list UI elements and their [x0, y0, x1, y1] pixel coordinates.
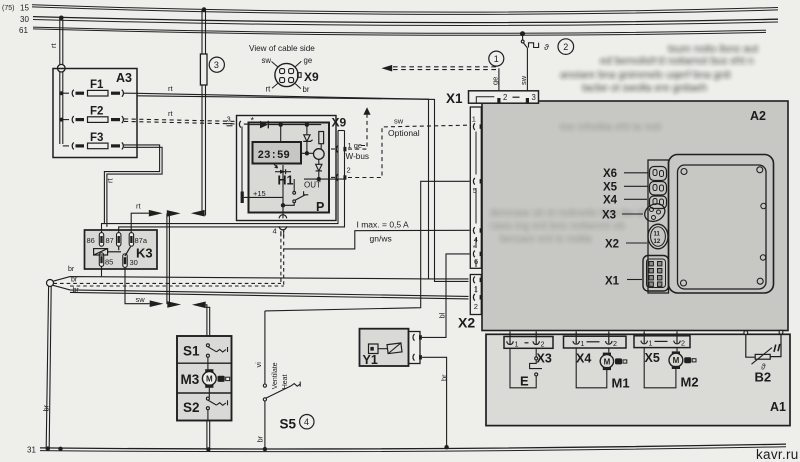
svg-text:X1: X1 [605, 276, 620, 288]
wire bus30 to A3 (rt) [60, 19, 63, 66]
svg-text:1: 1 [474, 284, 478, 293]
wire X1 pin5 to switch S5 (vi) [265, 181, 470, 311]
resistor [319, 132, 324, 144]
svg-text:A1: A1 [770, 400, 786, 414]
wire node to display [280, 126, 282, 142]
X1 pin 1 [472, 115, 483, 130]
svg-text:X5: X5 [645, 351, 660, 365]
svg-text:M: M [604, 357, 611, 366]
wire splice to X2 pin2 (br double) [53, 285, 469, 299]
svg-text:30: 30 [20, 15, 29, 24]
svg-text:F1: F1 [90, 79, 104, 91]
relay K3 [85, 230, 158, 269]
svg-text:1: 1 [494, 54, 499, 64]
svg-text:tne mhoitta eht ta noit: tne mhoitta eht ta noit [560, 121, 661, 133]
blower unit box S1/M3/S2 [177, 336, 232, 421]
svg-text:X3: X3 [602, 210, 616, 222]
glow plug E circuit [510, 348, 542, 388]
svg-text:vi: vi [254, 362, 263, 368]
ECU connector X2 [648, 224, 668, 249]
svg-text:4: 4 [474, 235, 478, 244]
circled 2 [558, 39, 574, 55]
ECU inner frame [678, 165, 767, 289]
svg-text:4: 4 [304, 417, 309, 427]
svg-text:H1: H1 [278, 174, 294, 188]
ECU corner screws [681, 169, 687, 175]
svg-text:rt: rt [266, 85, 272, 94]
svg-text:tacbe ot swolla ere gnitaeh: tacbe ot swolla ere gnitaeh [582, 82, 707, 94]
bus line 15 [32, 5, 778, 15]
svg-text:X6: X6 [603, 168, 617, 180]
svg-text:OUT: OUT [304, 181, 321, 190]
svg-text:br: br [439, 374, 448, 381]
X1 pin 6 [473, 245, 483, 266]
wire Y1 to bus31 (br) [422, 357, 447, 446]
circled 1 [489, 51, 504, 66]
fuse 3 (inline) [200, 54, 207, 85]
X1 pin 5 [473, 178, 483, 195]
X2 pin 1 [473, 277, 482, 294]
svg-text:ϑ: ϑ [544, 42, 549, 52]
motor M2 [644, 348, 696, 388]
svg-text:raws ing ent bno noitamot eb: raws ing ent bno noitamot eb [490, 220, 625, 232]
K3 pin 87a [129, 233, 133, 247]
svg-text:(75): (75) [2, 5, 14, 12]
svg-text:2: 2 [474, 302, 478, 311]
ECU connector X1 [643, 256, 669, 292]
junction dot on bus 61 for thermal switch [520, 31, 525, 36]
svg-text:S2: S2 [183, 400, 200, 415]
X9 bracket top bar [338, 130, 345, 132]
motor M3 [202, 369, 229, 388]
svg-text:3: 3 [214, 60, 219, 70]
label X6 [603, 168, 648, 180]
svg-text:tsum noits ilsno aut: tsum noits ilsno aut [668, 43, 758, 55]
wire sw arrow down to blower box [206, 305, 210, 336]
svg-text:2: 2 [541, 339, 545, 348]
wire blower to bus31 [207, 421, 210, 450]
svg-text:I max. = 0,5 A: I max. = 0,5 A [357, 220, 410, 230]
svg-text:12: 12 [654, 239, 661, 245]
svg-text:kavr.ru: kavr.ru [756, 447, 799, 462]
svg-text:X2: X2 [605, 239, 619, 251]
K3 coil [94, 249, 121, 255]
label X5 [603, 182, 648, 194]
K3 pin 30 [123, 254, 127, 268]
fuse box A3 [53, 69, 137, 158]
svg-text:4: 4 [273, 227, 277, 236]
fuse F2 [72, 116, 123, 123]
svg-text:K3: K3 [136, 246, 153, 261]
P pin 3 terminal [239, 121, 249, 128]
X1 top connector box (pins 2,3) [469, 91, 539, 103]
OUT line [304, 178, 344, 180]
svg-text:1: 1 [472, 115, 476, 124]
temperature sensor B2 [744, 330, 783, 371]
svg-text:br: br [303, 85, 310, 94]
svg-text:87: 87 [106, 236, 114, 245]
svg-text:30: 30 [130, 258, 138, 267]
X1 pin 4 [473, 227, 482, 244]
svg-text:A3: A3 [116, 71, 132, 85]
svg-text:View of cable side: View of cable side [249, 44, 315, 53]
switch S2 [206, 388, 227, 421]
svg-text:86: 86 [87, 236, 95, 245]
svg-text:bersam ent lo noitla: bersam ent lo noitla [500, 233, 592, 245]
connector box X4 [564, 332, 627, 349]
bus line 30 [33, 17, 778, 26]
svg-text:1: 1 [581, 339, 585, 348]
bus line 31 [40, 444, 786, 452]
svg-text:Optional: Optional [388, 128, 420, 138]
fuse F1 [72, 90, 137, 97]
circled 3 [209, 57, 224, 72]
internal switch [283, 179, 308, 205]
+15 terminal [241, 192, 244, 204]
control unit box A2 [482, 101, 788, 331]
wire fuse3 vertical from bus15 [202, 10, 206, 215]
svg-text:2: 2 [613, 339, 617, 348]
svg-text:*: * [473, 245, 476, 252]
ECU body [669, 155, 774, 294]
timer outer frame (X9 connector boundary) [237, 116, 337, 221]
ECU side bumps [761, 203, 766, 208]
fuse F3 [72, 142, 123, 149]
set-button symbol H1 [274, 164, 292, 175]
label X1 [605, 276, 642, 288]
P pin 4 lead [282, 208, 284, 219]
X2 pin 2 [473, 294, 482, 311]
svg-text:1: 1 [515, 339, 519, 348]
svg-text:sw: sw [519, 75, 528, 85]
svg-text:denmaw sit ot noitnetlo bna ti: denmaw sit ot noitnetlo bna tiw sl [490, 207, 644, 219]
K3 pin 86 [99, 233, 103, 247]
wire F3 rt down to K3/X9 rail [104, 145, 162, 227]
svg-text:2: 2 [503, 93, 507, 102]
svg-text:M2: M2 [681, 375, 699, 390]
switch S1 [206, 344, 227, 369]
wire splice down to bus31 (br) [46, 286, 51, 448]
svg-text:6: 6 [474, 257, 478, 266]
svg-text:M: M [206, 375, 213, 384]
node circle at A3 corner [58, 64, 66, 72]
svg-text:ge: ge [491, 77, 500, 85]
connector arrow pair (rt row) [149, 210, 205, 217]
dashed optional wire pin2 to X1 pin1 (sw) [348, 125, 469, 177]
P pin 4 terminal arcs [279, 215, 286, 230]
svg-text:ed bemolish'd noitamot bus eht: ed bemolish'd noitamot bus eht n [600, 55, 754, 67]
vertical link wires between arrow rows [167, 214, 170, 305]
X9 pin 1 terminal [331, 146, 346, 153]
label X4 [603, 195, 647, 207]
svg-text:X2: X2 [458, 315, 475, 331]
Y1 pin bottom [413, 354, 422, 361]
timer P inner box [249, 123, 330, 213]
svg-text:15: 15 [20, 4, 29, 13]
ECU connector X5 [650, 182, 667, 196]
valve Y1 [360, 329, 409, 367]
svg-text:sw: sw [136, 295, 146, 304]
wire K3 86 to X9 frame rail [102, 131, 339, 233]
K3 contact blade [119, 246, 131, 256]
svg-text:Y1: Y1 [363, 353, 378, 367]
svg-text:E: E [520, 374, 529, 389]
svg-text:S1: S1 [183, 344, 200, 359]
svg-text:M: M [673, 356, 680, 365]
switch S5 ventilate/heat [263, 311, 300, 448]
output diode [316, 159, 322, 179]
svg-text:F2: F2 [90, 106, 103, 118]
svg-text:2: 2 [347, 166, 351, 175]
svg-text:85: 85 [105, 258, 113, 267]
svg-text:3: 3 [227, 115, 231, 124]
ECU connector X4 [650, 196, 667, 209]
connector arrow pair (sw row) [150, 300, 206, 308]
svg-text:11: 11 [654, 232, 661, 238]
K3 pin 85 [99, 253, 103, 267]
label X2 [605, 239, 647, 251]
clock display 23:59 [253, 142, 302, 164]
X1 connector bracket [470, 107, 481, 268]
Y1 connector bracket [409, 332, 421, 364]
connector box X5 [634, 332, 690, 348]
svg-text:W-bus: W-bus [346, 152, 370, 161]
svg-text:bl: bl [437, 312, 446, 318]
dashed W-bus wire with up arrow [348, 115, 367, 150]
svg-text:S5: S5 [280, 417, 297, 432]
dashed ge continuation arrow (left) [381, 65, 392, 72]
wire K3 87a up to connector arrow (rt) [131, 213, 149, 232]
splice node (br) [47, 280, 54, 287]
junction dots on bus 31 [58, 447, 62, 451]
svg-text:X4: X4 [576, 352, 591, 366]
svg-text:2: 2 [681, 339, 685, 348]
ECU connector X6 [650, 167, 667, 181]
svg-text:5: 5 [473, 186, 477, 195]
svg-text:br: br [68, 266, 75, 273]
internal ground rail [282, 165, 284, 205]
X2 connector bracket [470, 275, 481, 315]
svg-text:3: 3 [532, 93, 536, 102]
svg-text:61: 61 [19, 26, 28, 35]
svg-text:F3: F3 [90, 132, 103, 144]
svg-text:sw: sw [394, 117, 404, 126]
svg-text:X9: X9 [304, 70, 319, 84]
svg-text:A2: A2 [750, 109, 766, 123]
X9 pin 2 terminal [331, 174, 346, 181]
wire splice to K3 85 and X2 pin1 (br) [53, 277, 428, 282]
svg-text:2: 2 [563, 42, 568, 52]
svg-text:gn/ws: gn/ws [370, 234, 392, 244]
wire X1 pin6 to valve Y1 (bl) [422, 254, 470, 338]
svg-text:X5: X5 [603, 182, 618, 194]
svg-text:B2: B2 [755, 370, 772, 385]
svg-text:31: 31 [27, 446, 36, 455]
svg-text:Ventilate: Ventilate [272, 362, 279, 389]
svg-text:br: br [71, 277, 78, 284]
connector box X3 [504, 332, 553, 349]
zener diode [303, 126, 312, 152]
svg-text:P: P [316, 200, 324, 214]
ECU connector X3 [642, 200, 668, 225]
wire splice dashed to P pin 4 [53, 229, 283, 286]
bus line 61 [33, 27, 766, 35]
wire F2 dashed (rt) to P pin 3 [124, 119, 236, 124]
A3 internal feed rail [60, 72, 69, 146]
wire ge down to X1 top pin 2 [498, 68, 500, 98]
svg-text:br: br [42, 404, 51, 411]
thermal fuse on bus 61 [521, 36, 538, 99]
motor M1 [576, 348, 627, 388]
svg-text:M1: M1 [612, 376, 630, 391]
junction dot on bus 30 [59, 15, 64, 20]
svg-text:X4: X4 [603, 195, 618, 207]
svg-text:anoiare bna gnimmelc uqerf bna: anoiare bna gnimmelc uqerf bna gnit [560, 69, 731, 81]
svg-text:23:59: 23:59 [258, 150, 290, 162]
svg-text:1: 1 [649, 339, 653, 348]
svg-text:*: * [251, 116, 255, 126]
svg-text:ge: ge [304, 56, 313, 65]
svg-text:M3: M3 [181, 372, 200, 387]
wire K3 87 to X9 frame rail [119, 131, 345, 233]
K3 pin 87 [117, 233, 121, 247]
wire K3 30 down to sw arrow [125, 267, 150, 303]
Y1 pin top [413, 334, 422, 341]
svg-text:Heat: Heat [282, 374, 289, 389]
X9 cable-side connector circle [272, 61, 302, 88]
wire pin3 internal margin down to +15 [241, 127, 243, 193]
svg-text:sw: sw [262, 56, 272, 65]
heater unit box A1 [486, 334, 790, 425]
junction dot on bus 15 for fuse 3 wire [202, 7, 206, 11]
output stage circle [314, 149, 325, 160]
circled 4 [300, 415, 314, 429]
ECU housing connector column [648, 160, 669, 293]
svg-text:87a: 87a [135, 236, 148, 245]
svg-text:X9: X9 [332, 116, 347, 130]
svg-text:+15: +15 [253, 189, 266, 198]
wire F1 rt to X2 pin1 (long double line) [137, 93, 469, 281]
label X3 [602, 210, 643, 222]
svg-text:X1: X1 [446, 91, 463, 106]
svg-text:X3: X3 [537, 352, 552, 366]
svg-text:br: br [256, 435, 265, 442]
